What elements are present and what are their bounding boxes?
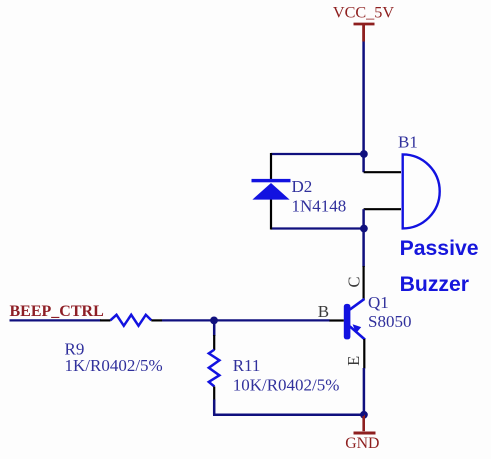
- wire buzzer pin 2 elbow to node B: [362, 209, 365, 228]
- svg-text:C: C: [344, 276, 363, 287]
- svg-text:R11: R11: [233, 356, 261, 375]
- svg-text:10K/R0402/5%: 10K/R0402/5%: [233, 376, 340, 395]
- node B junction: [360, 225, 368, 233]
- resistor R11 pin bottom: [213, 387, 215, 401]
- resistor R9 pin left: [100, 319, 111, 321]
- svg-text:E: E: [344, 356, 363, 366]
- diode D2 cathode pin: [270, 153, 272, 180]
- node C junction: [360, 411, 368, 419]
- buzzer pin 1: [364, 171, 401, 173]
- transistor Q1 collector pin: [363, 266, 365, 300]
- wire node D down to R11: [213, 320, 216, 336]
- svg-text:B1: B1: [398, 133, 418, 152]
- buzzer B1 symbol: [403, 154, 440, 228]
- svg-text:VCC_5V: VCC_5V: [333, 4, 394, 22]
- svg-text:1N4148: 1N4148: [292, 196, 347, 215]
- resistor R11 pin top: [213, 335, 215, 350]
- svg-text:D2: D2: [292, 177, 313, 196]
- wire R11 to bottom rail: [213, 400, 216, 415]
- svg-text:Q1: Q1: [368, 293, 389, 312]
- svg-text:B: B: [318, 302, 329, 321]
- wire node A down to buzzer pin elbow: [362, 154, 365, 172]
- wire node B to diode anode branch: [271, 227, 364, 229]
- wire node D to Q1 base: [214, 319, 330, 321]
- svg-text:BEEP_CTRL: BEEP_CTRL: [10, 303, 104, 320]
- wire R9 to node D: [162, 319, 214, 321]
- wire node B to collector pin: [362, 229, 365, 268]
- text Passive Buzzer: [400, 237, 479, 296]
- diode D2 anode pin: [270, 199, 272, 230]
- svg-text:GND: GND: [345, 435, 379, 452]
- wire node A to diode cathode branch: [271, 153, 364, 155]
- wire bottom rail to node C: [213, 414, 364, 417]
- transistor Q1 base pin: [329, 319, 344, 321]
- svg-text:Passive: Passive: [400, 237, 479, 260]
- wire BEEP_CTRL to R9: [10, 319, 102, 321]
- resistor R9 pin right: [151, 319, 162, 321]
- node A junction: [360, 150, 368, 158]
- ground symbol: [354, 415, 376, 433]
- svg-text:S8050: S8050: [368, 312, 411, 331]
- buzzer pin 2: [364, 208, 401, 210]
- transistor Q1 emitter pin: [363, 339, 365, 369]
- wire emitter to node C: [363, 368, 366, 415]
- svg-text:Buzzer: Buzzer: [400, 273, 469, 296]
- resistor R11 symbol: [209, 350, 220, 387]
- resistor R9 symbol: [110, 315, 151, 326]
- node D junction: [210, 317, 218, 325]
- wire VCC to node A: [362, 42, 365, 155]
- power symbol VCC bar: [354, 24, 375, 42]
- svg-text:1K/R0402/5%: 1K/R0402/5%: [65, 356, 163, 375]
- transistor Q1 symbol: [344, 299, 365, 340]
- diode D2 symbol: [252, 179, 291, 200]
